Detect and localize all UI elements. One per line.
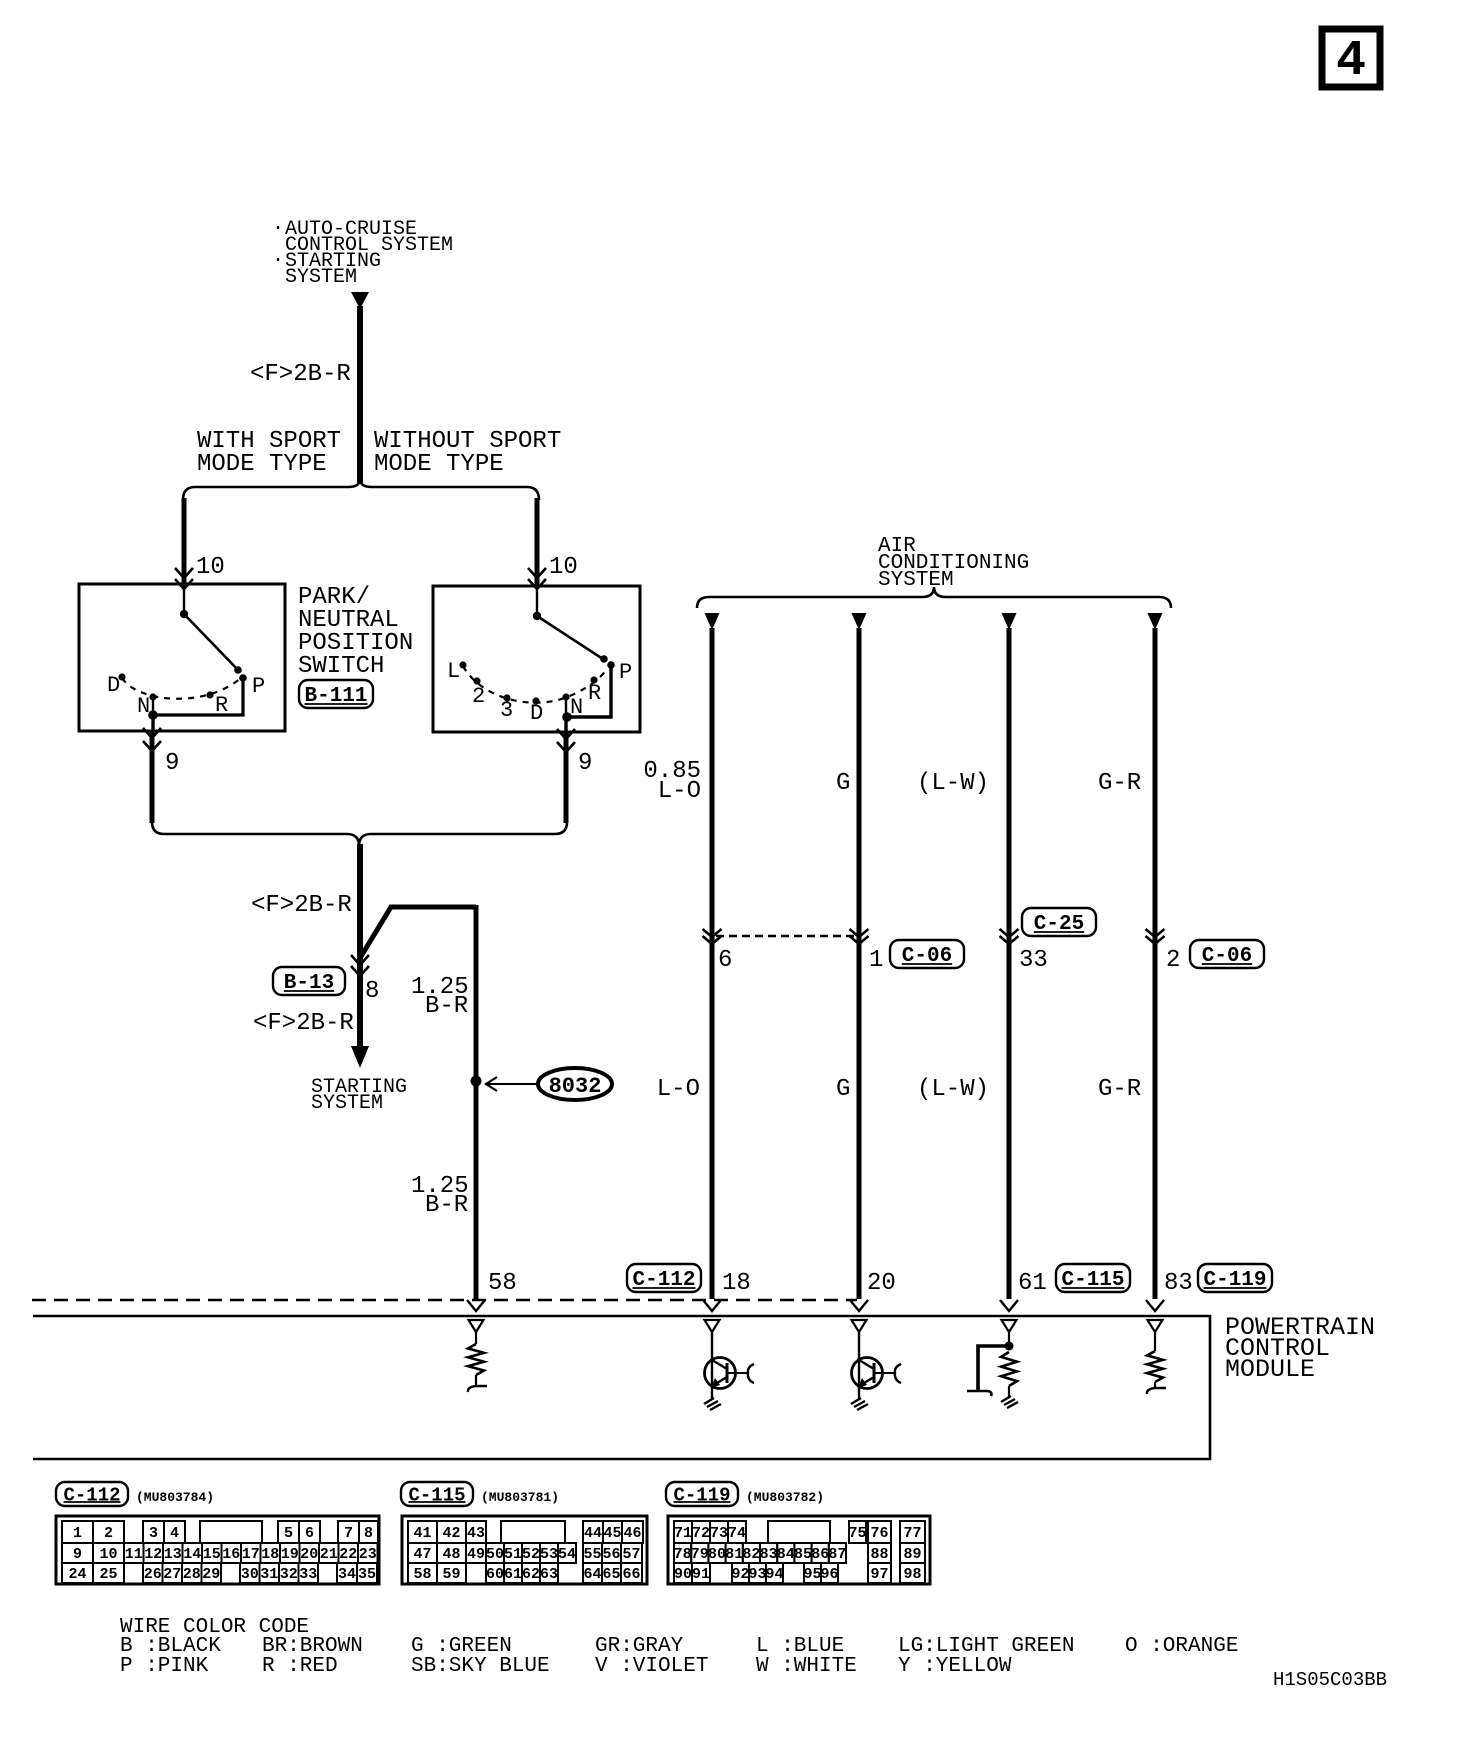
svg-text:33: 33 — [1019, 947, 1048, 974]
svg-text:33: 33 — [299, 1566, 317, 1583]
svg-text:2: 2 — [1166, 947, 1180, 974]
svg-text:34: 34 — [338, 1566, 356, 1583]
svg-text:MODE TYPE: MODE TYPE — [374, 451, 504, 478]
svg-text:11: 11 — [125, 1546, 143, 1563]
svg-text:MODULE: MODULE — [1225, 1355, 1315, 1384]
svg-text:2: 2 — [472, 684, 485, 709]
svg-text:G-R: G-R — [1098, 1076, 1141, 1103]
svg-text:D: D — [530, 701, 543, 726]
svg-text:59: 59 — [442, 1566, 460, 1583]
svg-text:5: 5 — [284, 1525, 293, 1542]
svg-text:10: 10 — [549, 554, 578, 581]
svg-text:R: R — [588, 681, 601, 706]
svg-text:72: 72 — [692, 1525, 710, 1542]
svg-text:L: L — [447, 659, 460, 684]
svg-text:4: 4 — [1336, 33, 1366, 90]
svg-text:29: 29 — [202, 1566, 220, 1583]
svg-text:MODE TYPE: MODE TYPE — [197, 451, 327, 478]
svg-text:V :VIOLET: V :VIOLET — [595, 1655, 708, 1678]
svg-text:<F>2B-R: <F>2B-R — [253, 1010, 354, 1037]
svg-text:SYSTEM: SYSTEM — [311, 1092, 383, 1115]
svg-text:98: 98 — [903, 1566, 921, 1583]
svg-text:46: 46 — [623, 1525, 641, 1542]
svg-text:65: 65 — [602, 1566, 620, 1583]
svg-text:C-115: C-115 — [408, 1484, 465, 1506]
svg-text:62: 62 — [522, 1566, 540, 1583]
svg-text:14: 14 — [183, 1546, 201, 1563]
svg-text:B-R: B-R — [425, 1192, 468, 1219]
svg-text:G: G — [836, 770, 850, 797]
svg-text:15: 15 — [203, 1546, 221, 1563]
svg-text:2: 2 — [104, 1525, 113, 1542]
svg-text:P: P — [619, 660, 632, 685]
svg-text:SWITCH: SWITCH — [298, 653, 384, 680]
svg-text:6: 6 — [305, 1525, 314, 1542]
svg-text:64: 64 — [583, 1566, 601, 1583]
svg-text:86: 86 — [811, 1546, 829, 1563]
svg-text:D: D — [107, 673, 120, 698]
svg-text:90: 90 — [674, 1566, 692, 1583]
svg-text:3: 3 — [149, 1525, 158, 1542]
svg-text:83: 83 — [760, 1546, 778, 1563]
svg-text:·: · — [272, 249, 284, 272]
svg-text:51: 51 — [504, 1546, 522, 1563]
svg-text:SYSTEM: SYSTEM — [878, 569, 954, 592]
svg-text:96: 96 — [820, 1566, 838, 1583]
svg-text:W :WHITE: W :WHITE — [756, 1655, 857, 1678]
svg-text:55: 55 — [583, 1546, 601, 1563]
svg-text:32: 32 — [280, 1566, 298, 1583]
svg-text:20: 20 — [867, 1270, 896, 1297]
svg-text:8: 8 — [365, 978, 379, 1005]
svg-text:61: 61 — [1018, 1270, 1047, 1297]
svg-text:H1S05C03BB: H1S05C03BB — [1273, 1669, 1387, 1691]
svg-text:10: 10 — [196, 554, 225, 581]
svg-text:G: G — [836, 1076, 850, 1103]
svg-text:21: 21 — [320, 1546, 338, 1563]
svg-text:43: 43 — [467, 1525, 485, 1542]
svg-text:54: 54 — [558, 1546, 576, 1563]
svg-text:1: 1 — [73, 1525, 82, 1542]
svg-text:42: 42 — [442, 1525, 460, 1542]
svg-text:58: 58 — [413, 1566, 431, 1583]
svg-text:19: 19 — [281, 1546, 299, 1563]
svg-text:10: 10 — [99, 1546, 117, 1563]
svg-text:76: 76 — [870, 1525, 888, 1542]
svg-text:17: 17 — [242, 1546, 260, 1563]
svg-text:97: 97 — [870, 1566, 888, 1583]
svg-text:7: 7 — [344, 1525, 353, 1542]
svg-text:28: 28 — [183, 1566, 201, 1583]
svg-text:B-R: B-R — [425, 993, 468, 1020]
svg-text:88: 88 — [870, 1546, 888, 1563]
svg-text:57: 57 — [622, 1546, 640, 1563]
svg-text:8032: 8032 — [549, 1074, 602, 1099]
svg-text:87: 87 — [828, 1546, 846, 1563]
svg-text:(MU803784): (MU803784) — [136, 1490, 214, 1505]
svg-text:82: 82 — [742, 1546, 760, 1563]
svg-text:20: 20 — [300, 1546, 318, 1563]
svg-text:47: 47 — [413, 1546, 431, 1563]
svg-text:23: 23 — [359, 1546, 377, 1563]
svg-text:91: 91 — [692, 1566, 710, 1583]
svg-text:73: 73 — [710, 1525, 728, 1542]
svg-text:79: 79 — [691, 1546, 709, 1563]
svg-text:94: 94 — [765, 1566, 783, 1583]
svg-text:61: 61 — [504, 1566, 522, 1583]
svg-text:27: 27 — [163, 1566, 181, 1583]
svg-text:C-119: C-119 — [673, 1484, 730, 1506]
svg-text:52: 52 — [522, 1546, 540, 1563]
svg-text:78: 78 — [674, 1546, 692, 1563]
svg-text:89: 89 — [903, 1546, 921, 1563]
svg-text:<F>2B-R: <F>2B-R — [250, 361, 351, 388]
svg-text:18: 18 — [722, 1270, 751, 1297]
svg-text:25: 25 — [99, 1566, 117, 1583]
svg-text:16: 16 — [222, 1546, 240, 1563]
svg-text:30: 30 — [241, 1566, 259, 1583]
svg-text:80: 80 — [708, 1546, 726, 1563]
svg-text:(MU803781): (MU803781) — [481, 1490, 559, 1505]
svg-text:26: 26 — [144, 1566, 162, 1583]
svg-text:56: 56 — [602, 1546, 620, 1563]
svg-text:74: 74 — [728, 1525, 746, 1542]
svg-text:9: 9 — [165, 750, 179, 777]
svg-text:12: 12 — [144, 1546, 162, 1563]
svg-text:<F>2B-R: <F>2B-R — [251, 892, 352, 919]
svg-text:1: 1 — [869, 947, 883, 974]
svg-text:58: 58 — [488, 1270, 517, 1297]
svg-text:9: 9 — [73, 1546, 82, 1563]
svg-text:8: 8 — [364, 1525, 373, 1542]
svg-text:41: 41 — [413, 1525, 431, 1542]
svg-text:77: 77 — [903, 1525, 921, 1542]
svg-text:3: 3 — [500, 698, 513, 723]
svg-text:(L-W): (L-W) — [917, 770, 989, 797]
svg-text:G-R: G-R — [1098, 770, 1141, 797]
svg-text:·: · — [272, 217, 284, 240]
svg-text:O :ORANGE: O :ORANGE — [1125, 1635, 1238, 1658]
svg-text:P: P — [252, 674, 265, 699]
svg-text:31: 31 — [260, 1566, 278, 1583]
svg-text:93: 93 — [748, 1566, 766, 1583]
svg-text:81: 81 — [725, 1546, 743, 1563]
svg-text:24: 24 — [68, 1566, 86, 1583]
svg-text:Y :YELLOW: Y :YELLOW — [898, 1655, 1012, 1678]
svg-text:63: 63 — [540, 1566, 558, 1583]
svg-text:R :RED: R :RED — [262, 1655, 338, 1678]
svg-text:22: 22 — [339, 1546, 357, 1563]
svg-text:SYSTEM: SYSTEM — [285, 266, 357, 289]
svg-text:(L-W): (L-W) — [917, 1076, 989, 1103]
svg-text:(MU803782): (MU803782) — [746, 1490, 824, 1505]
svg-text:L-O: L-O — [658, 778, 701, 805]
svg-text:83: 83 — [1164, 1270, 1193, 1297]
svg-text:75: 75 — [848, 1525, 866, 1542]
svg-text:18: 18 — [261, 1546, 279, 1563]
svg-text:P :PINK: P :PINK — [120, 1655, 209, 1678]
svg-text:71: 71 — [674, 1525, 692, 1542]
svg-text:66: 66 — [622, 1566, 640, 1583]
svg-text:48: 48 — [442, 1546, 460, 1563]
svg-text:9: 9 — [578, 750, 592, 777]
svg-text:13: 13 — [164, 1546, 182, 1563]
svg-text:50: 50 — [486, 1546, 504, 1563]
svg-text:SB:SKY BLUE: SB:SKY BLUE — [411, 1655, 550, 1678]
svg-text:53: 53 — [540, 1546, 558, 1563]
svg-text:60: 60 — [486, 1566, 504, 1583]
svg-text:6: 6 — [718, 947, 732, 974]
svg-text:35: 35 — [358, 1566, 376, 1583]
svg-text:44: 44 — [584, 1525, 602, 1542]
svg-text:C-112: C-112 — [63, 1484, 120, 1506]
svg-text:84: 84 — [777, 1546, 795, 1563]
svg-text:45: 45 — [603, 1525, 621, 1542]
svg-text:85: 85 — [794, 1546, 812, 1563]
svg-text:49: 49 — [467, 1546, 485, 1563]
svg-text:L-O: L-O — [657, 1076, 700, 1103]
svg-text:4: 4 — [170, 1525, 179, 1542]
svg-text:92: 92 — [731, 1566, 749, 1583]
svg-text:95: 95 — [803, 1566, 821, 1583]
